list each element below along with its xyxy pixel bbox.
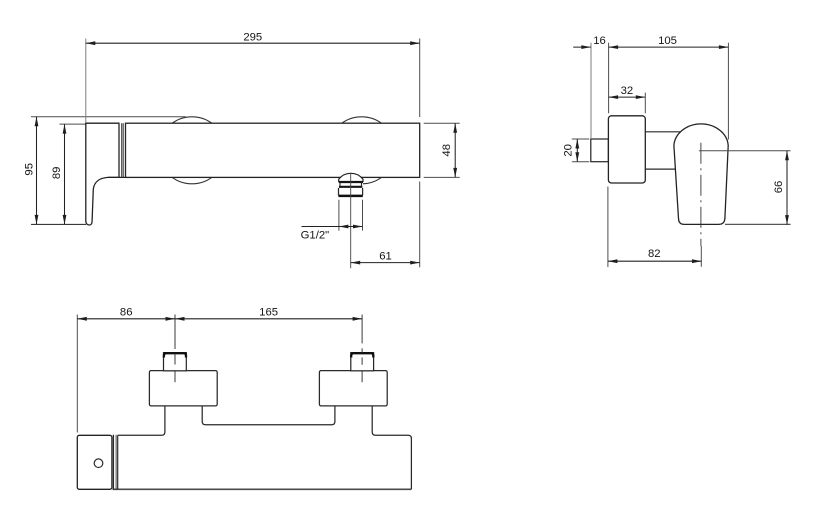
dimension 95: [36, 117, 38, 225]
dimension 295: [86, 42, 420, 44]
handle grip side: [674, 124, 728, 225]
union block left: [149, 371, 217, 406]
stub right bold top: [351, 353, 373, 357]
handle lever outline: [86, 123, 119, 225]
svg-text:82: 82: [648, 248, 661, 260]
bar left edge: [117, 435, 119, 489]
svg-text:165: 165: [259, 306, 278, 318]
extension line 89 top: [60, 123, 86, 125]
svg-text:95: 95: [23, 163, 35, 176]
svg-text:G1/2": G1/2": [301, 230, 330, 242]
svg-text:16: 16: [593, 35, 606, 47]
extension line 295 left: [85, 39, 87, 123]
svg-text:105: 105: [658, 35, 677, 47]
dimension 165: [175, 318, 362, 320]
extension line flange left: [608, 43, 610, 114]
handle collar line 2: [122, 123, 124, 177]
dimension G1/2: [339, 226, 363, 228]
dimension 61: [351, 262, 420, 264]
dimension 82: [608, 260, 702, 262]
cap screw hole: [94, 459, 103, 468]
neck lines: [645, 132, 684, 169]
extension line 295/61 right: [419, 39, 421, 268]
svg-text:61: 61: [379, 251, 392, 263]
outlet nut lower band sides: [339, 188, 363, 196]
escutcheon circle right: [328, 117, 395, 184]
center line left union: [174, 315, 176, 383]
extension line 82 right: [700, 246, 702, 267]
extension lines G1/2: [339, 200, 363, 231]
extension lines 20: [572, 139, 590, 162]
outlet nut bold edge 1: [339, 181, 363, 183]
outlet center line: [350, 173, 352, 268]
wall stub: [591, 139, 609, 162]
outlet nut dome: [339, 173, 363, 182]
extension line 48 top: [424, 122, 460, 124]
svg-text:89: 89: [51, 167, 63, 180]
extension line 66 bottom: [725, 223, 791, 225]
bar top edge right section: [372, 406, 411, 490]
outlet nut band sides: [340, 183, 362, 186]
outlet nut bold bottom: [338, 195, 362, 198]
escutcheon circle left: [159, 117, 226, 184]
extension line 32 right: [644, 93, 646, 114]
handle collar line 1: [121, 123, 123, 177]
extension line grip right: [727, 43, 729, 140]
bar bridge section: [202, 406, 335, 425]
union block right: [319, 371, 387, 406]
extension line 82 left: [607, 187, 609, 268]
center line right union: [361, 315, 363, 383]
svg-text:20: 20: [562, 144, 574, 157]
cap collar line 2: [115, 435, 117, 490]
svg-text:66: 66: [773, 181, 785, 194]
svg-text:86: 86: [120, 306, 133, 318]
stub left: [164, 353, 187, 371]
dimension 48: [454, 123, 456, 177]
stub right: [351, 353, 374, 371]
svg-text:48: 48: [441, 144, 453, 157]
outlet nut bold edge 2: [339, 186, 362, 188]
dimension 16: [573, 46, 591, 48]
svg-text:295: 295: [243, 31, 262, 43]
end cap: [77, 435, 112, 489]
extension line 95 top: [31, 116, 186, 118]
dimension 66: [786, 151, 788, 225]
outlet nut mask: [339, 173, 364, 195]
extension line 66 top: [699, 150, 791, 152]
dimension 20: [576, 139, 578, 162]
dimension 86: [77, 318, 175, 320]
cap collar line 1: [112, 435, 114, 490]
dimension 105: [609, 46, 729, 48]
bar top edge left section: [118, 406, 165, 436]
extension line 48 bottom: [424, 176, 460, 178]
stub left bold top: [164, 353, 186, 357]
dimension G1/2 leader tail: [302, 226, 339, 228]
wall flange: [608, 116, 645, 183]
extension line 86 left: [76, 315, 78, 433]
dimension 89: [64, 124, 66, 224]
handle underside line: [108, 176, 126, 178]
extension line bottom shared: [31, 223, 86, 225]
svg-text:32: 32: [621, 85, 634, 97]
extension line wall: [590, 43, 592, 138]
dimension 32: [609, 96, 646, 98]
faucet body bar: [126, 123, 420, 177]
bar bottom edge: [113, 488, 412, 490]
grip center line: [700, 143, 702, 246]
